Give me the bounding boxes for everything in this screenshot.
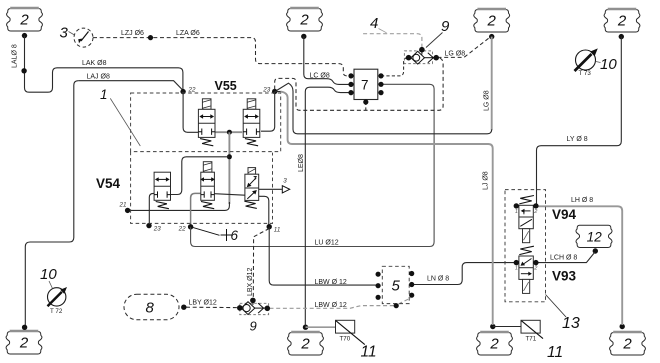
label 1 pointer [100,87,140,146]
coupling head 2 (bottom-right-2) [610,332,646,355]
svg-text:LH Ø 8: LH Ø 8 [571,197,593,204]
wire LAK [57,68,183,90]
wire LJ stub (node 23) [275,91,282,93]
svg-text:2: 2 [489,336,499,353]
coupling head 2 (bottom-right-1) [477,332,513,355]
node B (interstage) [227,154,232,159]
svg-text:T70: T70 [340,336,351,343]
pins of component 7 [348,73,383,104]
wire LAJ (horizontal into node 22) [78,81,183,91]
shuttle valve 9 housing (dashed) [404,51,432,64]
svg-text:LN Ø 8: LN Ø 8 [427,275,449,282]
wire LC (coupling 2 TM to component 7) [304,36,351,84]
coupling head 2 (top-mid) [287,8,323,31]
solenoid valve V54-2 [200,162,215,209]
node LC at coupling top-mid [301,34,306,39]
svg-text:11: 11 [361,344,377,361]
wire V54 valve3 to node 11 [259,196,269,224]
svg-text:V54: V54 [96,176,121,191]
wire LAL (coupling 2 TL down to junction) [25,36,58,93]
label 3 [60,25,75,42]
svg-text:T 73: T 73 [579,70,592,77]
node on LZJ/LZA line [148,35,153,40]
svg-text:5: 5 [392,278,401,295]
wire LBW upper (node 11 to component 5) [269,227,378,285]
svg-text:9: 9 [250,319,257,334]
component 5 (dashed box) [382,266,409,303]
svg-text:23: 23 [153,226,162,233]
pilot line shuttle 9 to coupling LG [438,37,491,57]
wire LCH (V93 to coupling 12) [536,252,595,262]
svg-text:2: 2 [617,13,627,30]
svg-text:21: 21 [119,202,127,209]
throttle valve V93 [514,246,539,293]
node LE at coupling bottom-mid [303,325,308,330]
label 4 [370,15,387,33]
wire LE (component 7 to coupling 2 BM) [305,87,351,325]
svg-text:7: 7 [361,78,369,93]
node 22 (V54) [188,224,193,229]
svg-text:10: 10 [40,266,57,283]
svg-text:LJ Ø8: LJ Ø8 [483,171,490,190]
svg-text:LAJ Ø8: LAJ Ø8 [87,73,110,80]
pilot line LZJ/LZA (sensor 3 to component 7) [93,38,348,76]
wire node23 to V55 valve2 right port [261,92,275,132]
svg-text:2: 2 [19,335,29,352]
wire LAJ (down left side to coupling bottom-left) [25,81,78,325]
wire LG horizontal (to node 23 V55) [277,83,492,134]
valve block V54 (dashed box) [131,152,273,224]
coupling head 2 (top-right-1) [474,9,510,32]
svg-text:LG Ø8: LG Ø8 [445,50,466,57]
svg-text:8: 8 [146,300,155,317]
test point T71 [521,320,543,342]
node 23 (V55) [272,89,277,94]
svg-text:1: 1 [515,266,518,272]
coupling head 2 (bottom-left) [6,331,42,354]
svg-text:LALØ 8: LALØ 8 [12,44,19,68]
coupling head 2 (top-left) [7,8,43,31]
pilot line component 7 to shuttle valve 9 top-left port [381,58,408,76]
svg-text:LBX Ø12: LBX Ø12 [247,267,254,296]
node LCH at coupling 12 [593,248,598,253]
svg-text:LBW Ø 12: LBW Ø 12 [315,302,347,309]
svg-text:3: 3 [283,178,287,185]
svg-text:LEØ8: LEØ8 [298,154,305,172]
valve V54-1 [154,172,170,209]
wire to test point T70 [306,326,336,328]
pressure test gauge T72 [48,287,68,315]
svg-text:1: 1 [100,87,108,102]
svg-text:LG Ø8: LG Ø8 [484,90,491,111]
svg-text:4: 4 [370,15,378,32]
svg-text:10: 10 [600,56,617,73]
svg-text:LU Ø12: LU Ø12 [315,239,339,246]
node LH at coupling bottom-right-2 [620,324,625,329]
coupling head 2 (bottom-mid) [288,332,324,355]
wire LY (coupling 2 TR2 to V94) [537,37,622,205]
svg-text:2: 2 [19,12,29,29]
svg-text:T71: T71 [526,336,537,343]
svg-text:11: 11 [274,227,281,234]
svg-text:V93: V93 [552,269,577,284]
svg-text:V94: V94 [552,207,577,222]
svg-text:2: 2 [622,336,632,353]
svg-text:LY Ø 8: LY Ø 8 [567,136,588,143]
node 22 (V55) [180,89,185,94]
pilot stub to component 5 corner port [399,298,412,304]
wire V55 valve1-valve2 interconnect [215,131,242,133]
node LAJ at coupling bottom-left [22,325,27,330]
svg-text:LC Ø8: LC Ø8 [310,72,330,79]
svg-text:1: 1 [515,209,518,215]
svg-text:LBY Ø12: LBY Ø12 [189,299,217,306]
shuttle valve 9b (bottom) [237,298,270,315]
solenoid valve V55-2 [243,99,260,146]
node 11 (V54) [267,224,272,229]
pilot loop node23-V55 to shuttle valve 9 right port [275,58,443,110]
wire V54 valve1 left port to node 23 [149,193,154,223]
svg-text:2: 2 [487,13,497,30]
pilot line LBY (reservoir 8 to shuttle 9b) [186,306,238,308]
pilot line 4 (gray) [363,34,422,48]
wire port 21 line [128,202,229,210]
node A (V55 mid) [227,130,232,135]
coupling 12 [576,225,612,247]
svg-text:LZA Ø6: LZA Ø6 [176,30,200,37]
wire to test point T71 [493,326,521,328]
wire node B to V54 valve1 right port [171,157,230,195]
node on LAL line [21,68,26,73]
svg-text:22: 22 [188,86,197,93]
node LG at coupling top-right-1 [489,34,494,39]
air reservoir 8 (dashed stadium) [124,294,179,320]
wire node22 to V55 valve1 left port [183,92,198,133]
label 10 (T72) [40,266,57,289]
wire node A down to node B (gray riser) [228,132,230,204]
node at reservoir 8 outlet [181,305,186,310]
wire V54 valve3 to exhaust [259,188,282,190]
svg-text:LAK Ø8: LAK Ø8 [82,60,107,67]
svg-text:6: 6 [231,228,239,243]
valve block V55 (dashed box) [131,93,281,152]
node 23 (V54) [146,223,151,228]
wire LN (component 5 to V93) [412,263,516,285]
wire LJ (to coupling 2 BR1) [281,92,493,326]
label 6 pointer [191,227,239,243]
svg-text:LZJ Ø6: LZJ Ø6 [121,30,144,37]
pilot line LBX (node 11 to shuttle 9b) [253,229,269,299]
shuttle valve 9b housing (dashed) [240,303,269,314]
wire V54 valve2-valve3 interconnect [214,194,244,196]
svg-text:T 72: T 72 [50,308,63,315]
svg-text:LCH Ø 8: LCH Ø 8 [550,255,577,262]
wire LU (node 22 V54 to component 7) [191,84,435,246]
svg-text:2: 2 [299,12,309,29]
exhaust port 3 (triangle) [282,178,289,194]
svg-text:13: 13 [562,315,580,332]
pins of component 5 [376,271,415,308]
label 10 (T73) [596,56,618,73]
valve unit 13 (dashed box) [505,190,546,302]
node LJ at coupling bottom-right-1 [490,324,495,329]
svg-text:V55: V55 [215,79,237,93]
wire V54 valve2 left port to node 22 [191,193,201,224]
coupling head 2 (top-right-2) [604,9,640,32]
wire LG vertical (coupling 2 TR1 down) [491,37,493,131]
throttle valve V94 [514,196,539,243]
svg-text:2: 2 [300,336,310,353]
pilot line LBW lower (shuttle 9b to component 5) [270,306,395,309]
svg-text:3: 3 [60,25,69,42]
label 9 (top) [426,18,450,48]
svg-text:12: 12 [587,229,603,244]
shuttle valve 9 (top) [406,47,439,64]
svg-text:22: 22 [178,226,187,233]
solenoid valve V55-1 [198,99,215,146]
svg-text:LBW Ø 12: LBW Ø 12 [315,279,347,286]
svg-text:11: 11 [547,344,563,361]
pilot stub component 7 bottom port [365,102,367,110]
node LAL at coupling top-left [22,33,27,38]
pressure test gauge T73 [575,48,598,77]
label 13 pointer [546,295,580,333]
component 7 (relay valve block) [354,69,378,99]
test point T70 [336,320,365,344]
node LY at coupling top-right-2 [619,34,624,39]
wire LH (V94 to coupling 2 BR2) [537,206,623,325]
levelling valve sensor 3 (dashed circle) [74,28,93,47]
solenoid valve V54-3 (3/2) [244,168,258,209]
node 21 (V54) [125,208,130,213]
